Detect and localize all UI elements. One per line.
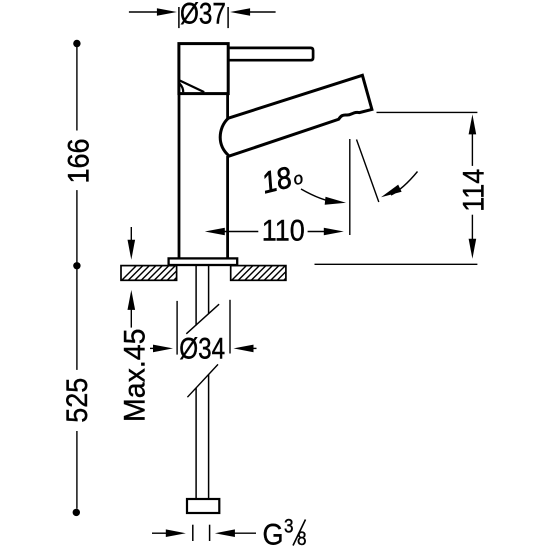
faucet body right edge upper [226, 94, 229, 119]
angle arc left with arrow [301, 189, 346, 205]
dimension D37 [129, 11, 276, 13]
svg-text:110: 110 [262, 214, 305, 248]
svg-text:Max.45: Max.45 [119, 329, 152, 422]
svg-text:114: 114 [457, 169, 491, 212]
svg-text:166: 166 [62, 138, 96, 183]
base flange [169, 258, 238, 265]
angle reference vertical line [349, 139, 351, 235]
svg-text:3: 3 [284, 516, 294, 537]
node dot middle [73, 262, 80, 269]
lever handle [228, 48, 314, 60]
svg-text:G: G [263, 518, 284, 548]
svg-text:Ø34: Ø34 [179, 331, 225, 365]
dimension 114 [315, 112, 478, 264]
supply shank tube upper segment [196, 265, 209, 325]
svg-text:525: 525 [61, 378, 95, 423]
faucet body left edge [178, 94, 181, 259]
svg-text:8: 8 [297, 528, 307, 548]
node dot top [73, 40, 80, 47]
G3/8 end connector block [187, 499, 219, 513]
faucet cartridge cap [179, 44, 228, 94]
lever tilt line inside cap [179, 80, 204, 92]
faucet body right edge lower [226, 156, 229, 258]
dimension 525 vertical line [76, 269, 78, 509]
dimension G3/8 [152, 532, 256, 534]
dimension 110 [224, 231, 325, 233]
angle reference diagonal line [357, 140, 379, 203]
svg-text:Ø37: Ø37 [180, 0, 226, 30]
node dot bottom [73, 509, 80, 516]
pipe break slash upper [186, 304, 219, 334]
pipe break slash lower [187, 364, 218, 397]
countertop deck right block with hatch [222, 260, 311, 290]
dimension D34 [150, 300, 257, 355]
supply shank tube lower segment [196, 375, 209, 500]
spout [220, 75, 372, 156]
angle arc right with arrow [381, 172, 418, 198]
dimension 166 vertical line [76, 46, 78, 263]
countertop deck left block with hatch [112, 260, 201, 290]
dimension Max.45 arrows [130, 227, 132, 328]
